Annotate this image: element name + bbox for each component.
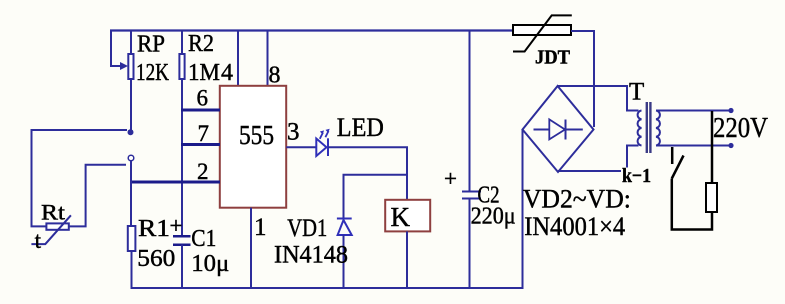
- wire R1 bottom to ground rail: [131, 251, 133, 289]
- svg-text:560: 560: [137, 246, 175, 272]
- wire Rt right up to circle contact: [69, 165, 126, 227]
- diode VD1 triangle: [338, 220, 352, 235]
- contact k-1 fixed stub: [671, 147, 674, 164]
- wire RP bottom to contact dot: [130, 79, 132, 132]
- thermal fuse JDT box: [513, 25, 571, 35]
- svg-text:Rt: Rt: [41, 200, 65, 225]
- svg-text:2: 2: [197, 159, 209, 184]
- svg-text:VD2~VD:: VD2~VD:: [523, 185, 631, 214]
- op-amp/timer U1 555 box: [220, 86, 286, 208]
- capacitor C2 plates: [462, 191, 481, 193]
- svg-text:6: 6: [197, 86, 209, 111]
- svg-text:7: 7: [198, 121, 210, 146]
- svg-text:220V: 220V: [713, 112, 768, 144]
- wire primary top to 220V terminal: [656, 110, 731, 112]
- svg-text:K: K: [391, 202, 411, 232]
- svg-text:3: 3: [287, 119, 300, 146]
- svg-text:1: 1: [254, 214, 267, 241]
- svg-text:+: +: [444, 166, 457, 191]
- ground rail bottom: [131, 287, 524, 289]
- potentiometer RP wiper arrow: [120, 62, 128, 70]
- svg-text:C1: C1: [191, 226, 216, 252]
- svg-text:4: 4: [221, 60, 233, 86]
- wire pin 6 stub: [181, 109, 220, 112]
- node 220V bottom terminal dot: [728, 143, 733, 148]
- thermal fuse JDT slash: [513, 15, 572, 51]
- bridge inner diode lead left: [534, 129, 550, 131]
- wire pin 1 to ground rail: [250, 208, 252, 289]
- wire upper left loop to dot: [32, 130, 128, 226]
- thermistor Rt slash: [31, 215, 71, 244]
- wire C2 bottom to ground rail: [469, 199, 471, 290]
- wire pin 2 run from switch to 555: [131, 181, 221, 184]
- LED light arrow 1: [320, 133, 323, 139]
- wire switch vertical to R1: [130, 161, 132, 226]
- svg-text:1M: 1M: [188, 60, 220, 86]
- wire LED to corner and down to relay: [328, 147, 407, 201]
- svg-text:IN4148: IN4148: [274, 242, 348, 269]
- wire top supply rail: [110, 29, 514, 31]
- wire 555 pin 4 to rail: [237, 31, 239, 86]
- resistor R2 body: [179, 54, 184, 79]
- node 220V top terminal dot: [728, 108, 733, 113]
- node A contact dot: [128, 129, 134, 135]
- bridge inner diode lead right: [566, 129, 583, 131]
- svg-text:+: +: [170, 213, 183, 238]
- wire C1 bottom to ground rail: [181, 245, 183, 289]
- potentiometer RP body: [128, 54, 133, 79]
- svg-text:555: 555: [239, 120, 274, 150]
- svg-text:k−1: k−1: [622, 165, 651, 187]
- svg-text:IN4001×4: IN4001×4: [524, 212, 625, 241]
- svg-text:t: t: [35, 228, 42, 253]
- wire bridge top vertex to transformer secondary top: [558, 86, 639, 111]
- svg-text:12K: 12K: [136, 60, 170, 86]
- transformer T core: [646, 102, 648, 153]
- wire k-1 down and to load: [672, 179, 712, 230]
- svg-text:LED: LED: [337, 113, 384, 142]
- relay K box: [385, 200, 430, 232]
- resistor R1 body: [128, 226, 136, 251]
- wire 555 pin 8 to rail: [267, 31, 269, 86]
- thermistor Rt body: [46, 223, 68, 229]
- capacitor C1 plates: [173, 235, 191, 238]
- wire K bottom to ground rail: [406, 231, 408, 289]
- wire JDT to bridge right vertex: [571, 31, 594, 127]
- diode VD1 cathode bar: [337, 218, 352, 220]
- svg-text:JDT: JDT: [535, 47, 570, 69]
- transformer T secondary coil: [638, 111, 642, 146]
- svg-text:220μ: 220μ: [471, 204, 516, 230]
- svg-text:T: T: [629, 79, 644, 106]
- wire VD1 anode to ground rail: [343, 235, 345, 289]
- contact k-1 moving arm: [672, 156, 684, 179]
- transformer T primary coil: [656, 111, 660, 146]
- wire primary bottom to 220V terminal: [656, 145, 731, 147]
- wire VD1 branch tee: [344, 175, 408, 219]
- bridge inner diode triangle: [549, 119, 565, 139]
- load resistor body: [706, 183, 717, 212]
- node B contact circle: [128, 155, 134, 161]
- wire pin 7 stub: [181, 143, 220, 146]
- wire R2 top to rail: [181, 31, 183, 54]
- svg-text:RP: RP: [137, 32, 165, 58]
- bridge rectifier VD2~VD5 diamond: [523, 86, 594, 172]
- bridge inner diode bar: [565, 120, 567, 140]
- svg-text:10μ: 10μ: [191, 251, 229, 277]
- svg-text:VD1: VD1: [287, 215, 327, 242]
- wire wiper drop from rail: [111, 31, 122, 66]
- wire load resistor top to 220V top line: [711, 111, 714, 183]
- wire pin 3 to LED: [286, 146, 316, 148]
- LED cathode bar: [327, 138, 329, 156]
- LED light arrow 2: [325, 131, 328, 137]
- capacitor C2 top wire from rail: [469, 31, 471, 192]
- wire RP top to rail: [130, 31, 132, 54]
- wire R2 bottom down to C1: [181, 79, 183, 237]
- svg-text:R2: R2: [188, 31, 214, 57]
- LED diode triangle: [316, 139, 326, 157]
- svg-text:R1: R1: [138, 216, 170, 242]
- wire bridge bottom vertex to transformer secondary bottom: [558, 146, 639, 172]
- wire bridge left vertex to ground rail: [522, 130, 524, 290]
- svg-text:8: 8: [269, 63, 281, 89]
- label k-1: [621, 168, 652, 185]
